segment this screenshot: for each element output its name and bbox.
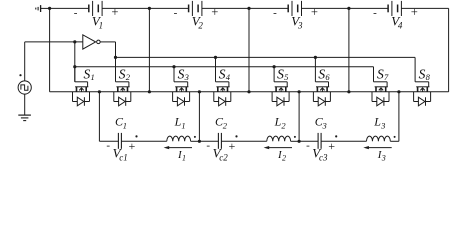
svg-text:c2: c2 xyxy=(219,152,228,162)
wire (gate bracket S8) xyxy=(415,82,429,87)
wire (vertical, node between V3/V4) xyxy=(348,8,350,91)
wire (down to AC source) xyxy=(24,42,26,81)
transistor S4 (MOSFET with body diode) xyxy=(216,87,229,92)
label S7 xyxy=(377,67,389,83)
inductor L3 xyxy=(367,136,391,141)
svg-text:S: S xyxy=(84,67,91,82)
svg-text:S: S xyxy=(119,67,126,82)
label S5 xyxy=(277,67,288,83)
svg-text:3: 3 xyxy=(322,120,327,130)
diode (anti-parallel of S5) xyxy=(272,92,289,106)
svg-text:-: - xyxy=(74,7,78,19)
svg-text:5: 5 xyxy=(284,72,288,82)
label I1 xyxy=(177,149,186,162)
svg-text:1: 1 xyxy=(182,154,186,163)
label V2 xyxy=(192,14,204,31)
polarity mark near C1 xyxy=(135,135,137,137)
node top-left junction xyxy=(48,7,51,10)
wire (top rail segment 2) xyxy=(102,7,189,9)
arrow I2 (current direction) xyxy=(264,146,292,149)
wire (inverter input drop) xyxy=(74,42,76,82)
wire (top rail segment 5) xyxy=(401,7,448,9)
svg-text:1: 1 xyxy=(91,72,95,82)
wire (gate bracket S3) xyxy=(174,82,188,87)
wire (lower gate bus) xyxy=(75,66,374,68)
node on top rail xyxy=(148,7,151,10)
wire (main switch rail) xyxy=(50,91,449,93)
wire (vertical, left node) xyxy=(49,8,51,91)
capacitor C3 xyxy=(318,133,321,149)
label V4 xyxy=(391,14,403,31)
wire (chain segment to C3) xyxy=(299,140,318,142)
svg-text:2: 2 xyxy=(281,120,286,130)
svg-text:L: L xyxy=(174,115,182,129)
node on top rail xyxy=(247,7,250,10)
svg-text:-: - xyxy=(373,7,377,19)
transistor S8 (MOSFET with body diode) xyxy=(416,87,429,92)
wire (gate bracket S5) xyxy=(274,82,287,87)
node on upper gate bus xyxy=(214,56,217,59)
label V3 xyxy=(291,14,303,31)
battery V4 xyxy=(388,1,401,16)
node on lower gate bus xyxy=(273,65,276,68)
svg-text:3: 3 xyxy=(297,20,303,30)
ground (top-left, horizontal) xyxy=(36,5,50,12)
ground (below AC source) xyxy=(18,115,31,121)
wire (chain tap vertical 1) xyxy=(98,92,100,142)
node on top rail xyxy=(347,7,350,10)
wire (upper gate bus) xyxy=(116,56,416,58)
label S2 xyxy=(119,67,131,83)
transistor S7 (MOSFET with body diode) xyxy=(375,87,388,92)
svg-text:-: - xyxy=(106,139,110,151)
wire (gate bracket S6) xyxy=(315,82,328,87)
transistor S3 (MOSFET with body diode) xyxy=(175,87,188,92)
wire (gate lead S5 drop) xyxy=(273,67,275,82)
wire (inverter output) xyxy=(100,41,115,43)
transistor S6 (MOSFET with body diode) xyxy=(316,87,329,92)
transistor S1 (MOSFET with body diode) xyxy=(75,87,88,92)
svg-text:6: 6 xyxy=(325,72,330,82)
wire (gate lead S7 drop) xyxy=(373,67,375,82)
svg-text:-: - xyxy=(174,7,178,19)
node on switch rail (battery drop) xyxy=(148,90,151,93)
polarity mark near C2 xyxy=(235,135,237,137)
polarity mark (asterisk) at AC source xyxy=(19,74,21,76)
wire (gate lead S1 from lower bus) xyxy=(74,67,76,82)
svg-text:S: S xyxy=(178,67,185,82)
label V1 xyxy=(92,14,103,31)
svg-text:c1: c1 xyxy=(119,152,128,162)
wire (L1 to tap) xyxy=(191,140,200,142)
label C1 xyxy=(115,115,127,131)
transistor S5 (MOSFET with body diode) xyxy=(275,87,288,92)
svg-text:2: 2 xyxy=(282,154,286,163)
wire (chain tap vertical 3) xyxy=(298,92,300,142)
wire (top rail segment 3) xyxy=(202,7,288,9)
svg-text:3: 3 xyxy=(184,72,189,82)
label L2 xyxy=(274,115,287,131)
svg-text:L: L xyxy=(274,115,282,129)
svg-text:-: - xyxy=(206,139,210,151)
label S8 xyxy=(419,67,431,83)
node upper bus start xyxy=(114,56,117,59)
svg-text:S: S xyxy=(377,67,384,82)
svg-text:+: + xyxy=(228,139,236,153)
node on switch rail (chain tap) xyxy=(198,90,201,93)
svg-text:1: 1 xyxy=(99,20,104,30)
wire (gate lead S3 drop) xyxy=(173,67,175,82)
label Vc3 xyxy=(312,146,328,163)
svg-text:4: 4 xyxy=(226,72,231,82)
svg-text:L: L xyxy=(373,115,381,129)
wire (gate bracket S2) xyxy=(116,82,129,87)
label L1 xyxy=(174,115,186,131)
svg-text:+: + xyxy=(327,139,335,153)
transistor S2 (MOSFET with body diode) xyxy=(116,87,129,92)
svg-text:+: + xyxy=(310,5,318,19)
wire (gate lead S6 drop) xyxy=(314,57,316,81)
wire (vertical, node between V1/V2) xyxy=(148,8,150,91)
inverter U1 xyxy=(83,35,100,49)
node lower bus start xyxy=(73,65,76,68)
wire (AC source branch horizontal) xyxy=(25,41,83,43)
capacitor C2 xyxy=(218,133,221,149)
wire (gate bracket S7) xyxy=(374,82,388,87)
wire (chain tap vertical 2) xyxy=(198,92,200,142)
wire (AC source to ground) xyxy=(24,94,26,115)
node on chain (after L1) xyxy=(198,140,201,143)
label L3 xyxy=(373,115,385,131)
arrow I3 (current direction) xyxy=(363,146,391,149)
wire (chain segment to C1) xyxy=(99,140,118,142)
arrow I1 (current direction) xyxy=(164,146,192,149)
svg-text:+: + xyxy=(410,5,418,19)
label I3 xyxy=(377,149,386,162)
node on lower gate bus xyxy=(172,65,175,68)
polarity mark near L3 xyxy=(394,136,396,138)
wire (vertical, right node) xyxy=(448,8,450,91)
svg-text:S: S xyxy=(419,67,426,82)
svg-text:2: 2 xyxy=(126,72,131,82)
svg-text:S: S xyxy=(219,67,226,82)
wire (gate bracket S4) xyxy=(216,82,229,87)
wire (gate lead S8 drop) xyxy=(414,57,416,81)
label C3 xyxy=(315,115,327,131)
svg-text:4: 4 xyxy=(398,20,403,30)
node inverter input tee xyxy=(73,40,76,43)
battery V1 xyxy=(89,1,102,16)
svg-text:3: 3 xyxy=(380,120,385,130)
diode (anti-parallel of S6) xyxy=(313,92,330,106)
svg-text:1: 1 xyxy=(181,120,185,130)
svg-text:S: S xyxy=(277,67,284,82)
diode (anti-parallel of S7) xyxy=(372,92,389,106)
wire (vertical, node between V2/V3) xyxy=(248,8,250,91)
wire (inverter output drop) xyxy=(115,42,117,82)
wire (top rail segment 4) xyxy=(302,7,389,9)
node on switch rail (chain tap) xyxy=(98,90,101,93)
wire (C1 to L1) xyxy=(121,140,166,142)
svg-text:2: 2 xyxy=(198,20,203,30)
wire (L2 to tap) xyxy=(291,140,300,142)
wire (chain tap vertical 4) xyxy=(398,92,400,142)
diode (anti-parallel of S1) xyxy=(73,92,90,106)
wire (gate lead S4 drop) xyxy=(215,57,217,81)
label C2 xyxy=(215,115,228,131)
svg-text:-: - xyxy=(273,7,277,19)
node on switch rail (chain tap) xyxy=(397,90,400,93)
diode (anti-parallel of S8) xyxy=(414,92,431,106)
svg-text:+: + xyxy=(111,5,119,19)
wire (L3 to tap) xyxy=(390,140,399,142)
battery V2 xyxy=(189,1,202,16)
inductor L2 xyxy=(267,136,291,141)
label S6 xyxy=(318,67,330,83)
polarity mark near L1 xyxy=(194,136,196,138)
polarity mark near C3 xyxy=(335,135,337,137)
svg-text:c3: c3 xyxy=(319,152,328,162)
label Vc2 xyxy=(213,146,229,163)
diode (anti-parallel of S2) xyxy=(114,92,131,106)
label Vc1 xyxy=(113,146,128,163)
wire (C3 to L3) xyxy=(321,140,366,142)
label I2 xyxy=(277,149,286,162)
node on upper gate bus xyxy=(314,56,317,59)
battery V3 xyxy=(288,1,301,16)
label S1 xyxy=(84,67,95,83)
wire (top rail segment 1) xyxy=(50,7,89,9)
diode (anti-parallel of S3) xyxy=(173,92,190,106)
svg-text:8: 8 xyxy=(426,72,431,82)
polarity mark near L2 xyxy=(294,136,296,138)
svg-text:1: 1 xyxy=(123,120,127,130)
wire (gate bracket S1) xyxy=(75,82,88,87)
svg-text:+: + xyxy=(210,5,218,19)
svg-text:2: 2 xyxy=(223,120,228,130)
label S3 xyxy=(178,67,189,83)
svg-text:3: 3 xyxy=(381,154,386,163)
wire (chain segment to C2) xyxy=(199,140,218,142)
svg-text:+: + xyxy=(128,139,136,153)
node on switch rail (chain tap) xyxy=(298,90,301,93)
node on chain (after L2) xyxy=(298,140,301,143)
svg-text:-: - xyxy=(306,139,310,151)
inductor L1 xyxy=(167,136,191,141)
node on switch rail (battery drop) xyxy=(247,90,250,93)
diode (anti-parallel of S4) xyxy=(214,92,231,106)
wire (C2 to L2) xyxy=(221,140,266,142)
label S4 xyxy=(219,67,231,83)
capacitor C1 xyxy=(118,133,121,149)
svg-text:S: S xyxy=(318,67,325,82)
node on switch rail (battery drop) xyxy=(347,90,350,93)
AC source Vs xyxy=(18,81,31,94)
